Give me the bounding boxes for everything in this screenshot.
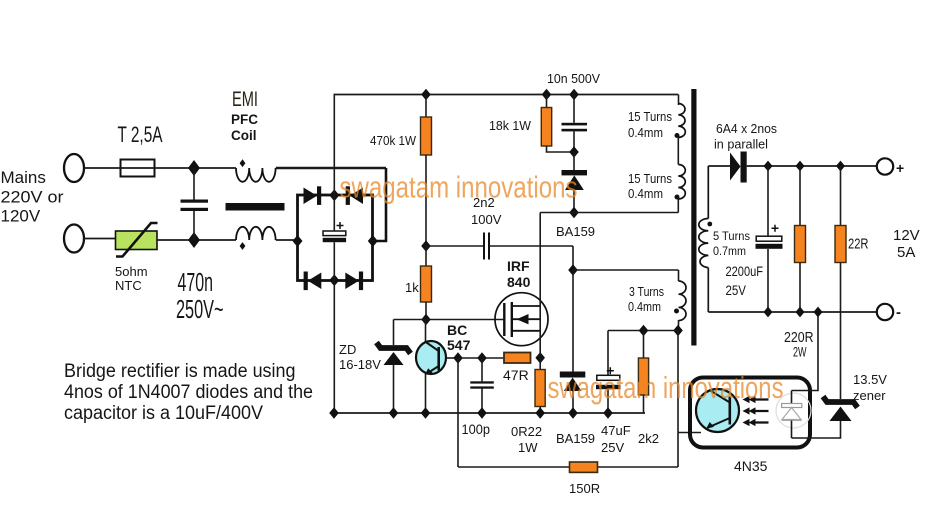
svg-text:22R: 22R xyxy=(848,236,869,253)
zener D8 13.5V xyxy=(823,312,858,421)
svg-text:47uF: 47uF xyxy=(601,423,631,438)
svg-text:25V: 25V xyxy=(726,282,747,298)
svg-text:in parallel: in parallel xyxy=(714,137,768,152)
wire coil L2 to bridge left node xyxy=(276,239,297,241)
MOSFET U1 IRF840 xyxy=(495,293,548,346)
node 22R top xyxy=(836,161,845,172)
svg-text:5A: 5A xyxy=(897,244,915,261)
svg-text:capacitor is a 10uF/400V: capacitor is a 10uF/400V xyxy=(64,403,263,424)
svg-text:BC: BC xyxy=(447,322,467,338)
node source xyxy=(535,352,545,364)
capacitor 470n 250V~ (X-cap) xyxy=(181,168,209,240)
node 2200uF - xyxy=(764,307,773,318)
node bridge AC right xyxy=(368,235,378,247)
svg-text:Mains: Mains xyxy=(1,168,46,187)
terminal N (bottom input) xyxy=(64,225,84,253)
svg-text:T 2,5A: T 2,5A xyxy=(118,122,163,147)
node drain/primary xyxy=(569,207,579,219)
wire base node to 47R xyxy=(458,357,504,359)
node 10n rail xyxy=(569,89,579,101)
resistor R4 0R22 1W current sense xyxy=(535,358,545,413)
svg-text:NTC: NTC xyxy=(115,278,142,293)
EMI coil bottom winding L2 xyxy=(236,227,276,240)
node aux winding bottom xyxy=(673,325,683,337)
node zener-ground xyxy=(389,407,399,419)
wire - rail xyxy=(708,311,877,313)
node bridge - (bottom center) xyxy=(329,274,339,286)
fuse F1 T2,5A xyxy=(121,160,155,177)
svg-text:100p: 100p xyxy=(462,421,491,437)
EMI core bar xyxy=(226,203,285,211)
svg-text:BA159: BA159 xyxy=(556,431,595,446)
opto phototransistor xyxy=(696,389,739,432)
node 100p tap xyxy=(477,352,487,364)
wire secondary top xyxy=(708,165,730,167)
node gate xyxy=(421,314,431,326)
bridge diode D4 (bottom-right) xyxy=(345,272,363,291)
svg-text:ZD: ZD xyxy=(339,342,356,357)
resistor R3 47R xyxy=(504,353,531,364)
node 18k rail xyxy=(542,89,552,101)
node 2200uF + xyxy=(764,161,773,172)
svg-text:150R: 150R xyxy=(569,481,600,496)
node A (top input junction) xyxy=(188,160,200,176)
capacitor C4 47uF 25V xyxy=(596,331,621,414)
svg-text:2k2: 2k2 xyxy=(638,431,659,446)
svg-text:EMI: EMI xyxy=(232,88,258,111)
transformer secondary winding 5T 0.7mm xyxy=(699,166,709,312)
wire LED anode to zener xyxy=(792,421,841,438)
node 47uF ground xyxy=(603,407,613,419)
resistor R5 18k 1W snubber xyxy=(541,95,574,153)
bridge diode D1 (top-left) xyxy=(304,186,322,205)
svg-text:0.4mm: 0.4mm xyxy=(628,186,663,201)
optocoupler U2 4N35 body xyxy=(690,378,810,448)
svg-text:1k: 1k xyxy=(405,280,419,295)
svg-text:6A4 x 2nos: 6A4 x 2nos xyxy=(716,121,777,136)
opto LED xyxy=(776,391,811,439)
resistor R8 220R 2W xyxy=(795,166,806,312)
svg-text:PFC: PFC xyxy=(231,112,258,127)
wire opto emitter branch xyxy=(678,432,701,434)
svg-text:10n 500V: 10n 500V xyxy=(547,71,600,86)
capacitor C3 100p xyxy=(470,358,494,413)
opto light arrows xyxy=(743,396,769,403)
diode D5 BA159 snubber xyxy=(562,152,588,213)
svg-text:470n: 470n xyxy=(178,269,214,297)
terminal + output xyxy=(877,158,893,174)
node bridge AC left xyxy=(293,235,303,247)
svg-text:13.5V: 13.5V xyxy=(853,372,887,387)
svg-text:BA159: BA159 xyxy=(556,224,595,239)
svg-text:12V: 12V xyxy=(893,227,920,244)
zener ZD 16-18V xyxy=(377,320,411,414)
polarity dot top coil xyxy=(240,159,246,167)
node snubber mid xyxy=(569,146,579,158)
node 2n2 tap xyxy=(421,240,431,252)
svg-text:100V: 100V xyxy=(471,212,502,227)
svg-text:18k 1W: 18k 1W xyxy=(489,118,532,133)
wire NTC to node B xyxy=(157,239,236,241)
thermistor NTC 5ohm xyxy=(116,223,158,257)
node LED anode rail xyxy=(814,307,823,318)
svg-text:47R: 47R xyxy=(503,367,529,383)
svg-text:5ohm: 5ohm xyxy=(115,264,148,279)
transformer primary winding 15T lower xyxy=(678,165,685,213)
diode D7 6A4 output rectifier xyxy=(730,152,747,183)
svg-text:220V or: 220V or xyxy=(1,187,64,206)
bridge diode D2 (top-right) xyxy=(346,186,363,205)
resistor R2 1k xyxy=(421,246,432,320)
capacitor C2 2n2 100V xyxy=(426,233,573,260)
svg-text:5 Turns: 5 Turns xyxy=(713,229,750,243)
capacitor 10uF/400V filter xyxy=(323,222,346,242)
svg-text:3 Turns: 3 Turns xyxy=(629,284,664,299)
svg-text:IRF: IRF xyxy=(507,258,530,274)
svg-text:2200uF: 2200uF xyxy=(726,263,764,279)
svg-text:Coil: Coil xyxy=(231,128,257,143)
wire bridge + up to HV rail xyxy=(333,95,335,232)
node ground rail left corner xyxy=(329,407,339,419)
node 2k2 tap xyxy=(639,325,649,337)
node 220R top xyxy=(796,161,805,172)
resistor R1 470k 1W xyxy=(421,95,432,247)
transformer core xyxy=(691,89,696,346)
wire drain to primary bottom xyxy=(540,212,678,214)
wire 2n2 to aux node xyxy=(572,246,574,270)
svg-text:15 Turns: 15 Turns xyxy=(628,171,672,186)
polarity dot secondary xyxy=(707,222,712,227)
svg-text:-: - xyxy=(896,304,901,321)
node HV rail / 470k xyxy=(421,89,431,101)
wire gate node to MOSFET gate xyxy=(426,319,504,321)
svg-text:4nos of 1N4007 diodes and the: 4nos of 1N4007 diodes and the xyxy=(64,382,313,403)
bridge diode D3 (bottom-left) xyxy=(304,272,322,291)
polarity dot aux xyxy=(674,309,679,314)
resistor R6 2k2 xyxy=(638,331,648,414)
wire gate node to zener xyxy=(394,319,427,321)
primary ground rail wire xyxy=(334,412,646,414)
svg-text:+: + xyxy=(896,160,904,176)
svg-text:2W: 2W xyxy=(793,344,807,360)
wire drain/source vertical xyxy=(539,213,541,358)
svg-text:470k 1W: 470k 1W xyxy=(370,133,417,148)
svg-text:zener: zener xyxy=(853,388,886,403)
resistor R9 22R xyxy=(835,166,846,312)
svg-text:swagatam innovations: swagatam innovations xyxy=(340,170,578,205)
node 0R22-ground xyxy=(535,407,545,419)
node B (bottom input junction) xyxy=(188,232,200,248)
wire LED cathode to minus rail xyxy=(792,312,819,391)
svg-text:Bridge rectifier is made using: Bridge rectifier is made using xyxy=(64,361,296,382)
bridge outer loop wire (top AC to right node) xyxy=(373,168,386,241)
diode D6 BA159 aux clamp xyxy=(560,270,586,413)
terminal - output xyxy=(877,304,893,320)
wire aux bottom bus xyxy=(608,330,678,332)
wire coil L1 to outer loop xyxy=(276,167,386,170)
node bridge + (top center) xyxy=(329,189,339,201)
node 220R bottom xyxy=(796,307,805,318)
svg-text:0.7mm: 0.7mm xyxy=(713,244,746,258)
svg-text:120V: 120V xyxy=(1,207,41,226)
svg-text:swagatam innovations: swagatam innovations xyxy=(548,370,784,405)
EMI coil top winding L1 xyxy=(236,168,276,182)
wire terminal N to NTC xyxy=(84,238,115,240)
wire + rail xyxy=(747,165,877,167)
bridge rectifier square xyxy=(298,195,373,281)
svg-text:4N35: 4N35 xyxy=(734,458,768,474)
svg-text:0.4mm: 0.4mm xyxy=(628,299,661,314)
svg-text:1W: 1W xyxy=(518,440,538,455)
HV+ rail wire xyxy=(334,94,679,96)
transformer primary winding 15T upper xyxy=(678,95,685,165)
wire opto feed vertical xyxy=(677,331,679,468)
node BC547 emitter-ground xyxy=(421,407,431,419)
node 100p-ground xyxy=(477,407,487,419)
node aux top xyxy=(568,264,578,276)
resistor R7 150R feedback xyxy=(458,462,678,472)
capacitor C5 2200uF 25V xyxy=(756,166,783,312)
polarity dot primary lower xyxy=(675,195,680,200)
transformer aux winding 3T xyxy=(573,270,686,330)
wire 150R dropline xyxy=(457,358,459,467)
svg-text:16-18V: 16-18V xyxy=(339,357,381,372)
svg-text:547: 547 xyxy=(447,337,471,353)
svg-text:840: 840 xyxy=(507,274,531,290)
svg-text:0.4mm: 0.4mm xyxy=(628,125,663,140)
svg-text:250V~: 250V~ xyxy=(176,296,224,324)
wire bridge - down to ground rail xyxy=(333,242,335,413)
svg-text:25V: 25V xyxy=(601,440,624,455)
terminal L (top input) xyxy=(64,154,84,182)
wire terminal L to fuse xyxy=(84,167,120,169)
polarity dot primary upper xyxy=(675,133,680,138)
node base/150R xyxy=(453,352,463,364)
svg-text:0R22: 0R22 xyxy=(511,424,542,439)
transistor Q2 BC547 xyxy=(416,320,458,414)
wire fuse to node A xyxy=(155,167,237,169)
capacitor C1 10n 500V snubber xyxy=(562,95,588,153)
node BA159 aux ground xyxy=(568,407,578,419)
svg-text:15 Turns: 15 Turns xyxy=(628,109,672,124)
polarity dot bottom coil xyxy=(240,242,246,250)
